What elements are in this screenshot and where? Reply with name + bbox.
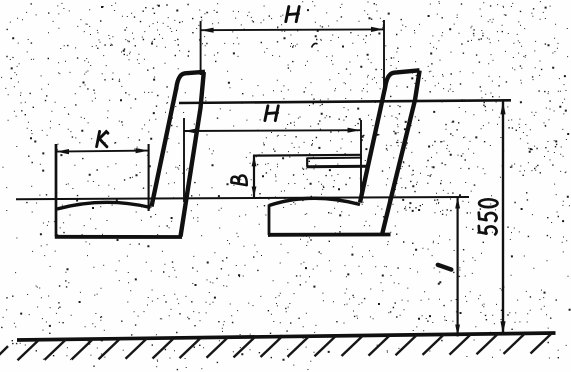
dim B dimension line [252,155,257,197]
dim B top line [253,154,361,157]
dim K dimension line [56,148,149,154]
dim H top right extension line [383,20,385,99]
dim H top left extension line [200,21,202,75]
dim H top dimension line [201,27,384,33]
ground line [17,333,556,340]
dim K right extension line [148,144,150,211]
label K [97,131,108,146]
bracket plate on right backrest [307,158,369,167]
stray pen mark [312,43,318,47]
right seat backrest [360,70,420,233]
left seat backrest [152,72,206,237]
left seat cushion [55,144,182,237]
reference line A (backrest top datum) [179,100,511,103]
label l [438,265,452,270]
dim H mid left extension line [183,118,185,202]
right seat cushion [268,198,391,235]
dim l dimension line [455,197,460,337]
dim H mid dimension line [184,128,361,134]
ground hatching [0,334,552,361]
label 550 [479,199,498,234]
label H mid [265,106,278,121]
dim H mid right extension line [360,120,362,202]
label B [231,176,246,186]
reference line B (seat cushion datum) [16,197,469,199]
label H top [286,7,299,22]
dim 550 dimension line [500,101,505,334]
